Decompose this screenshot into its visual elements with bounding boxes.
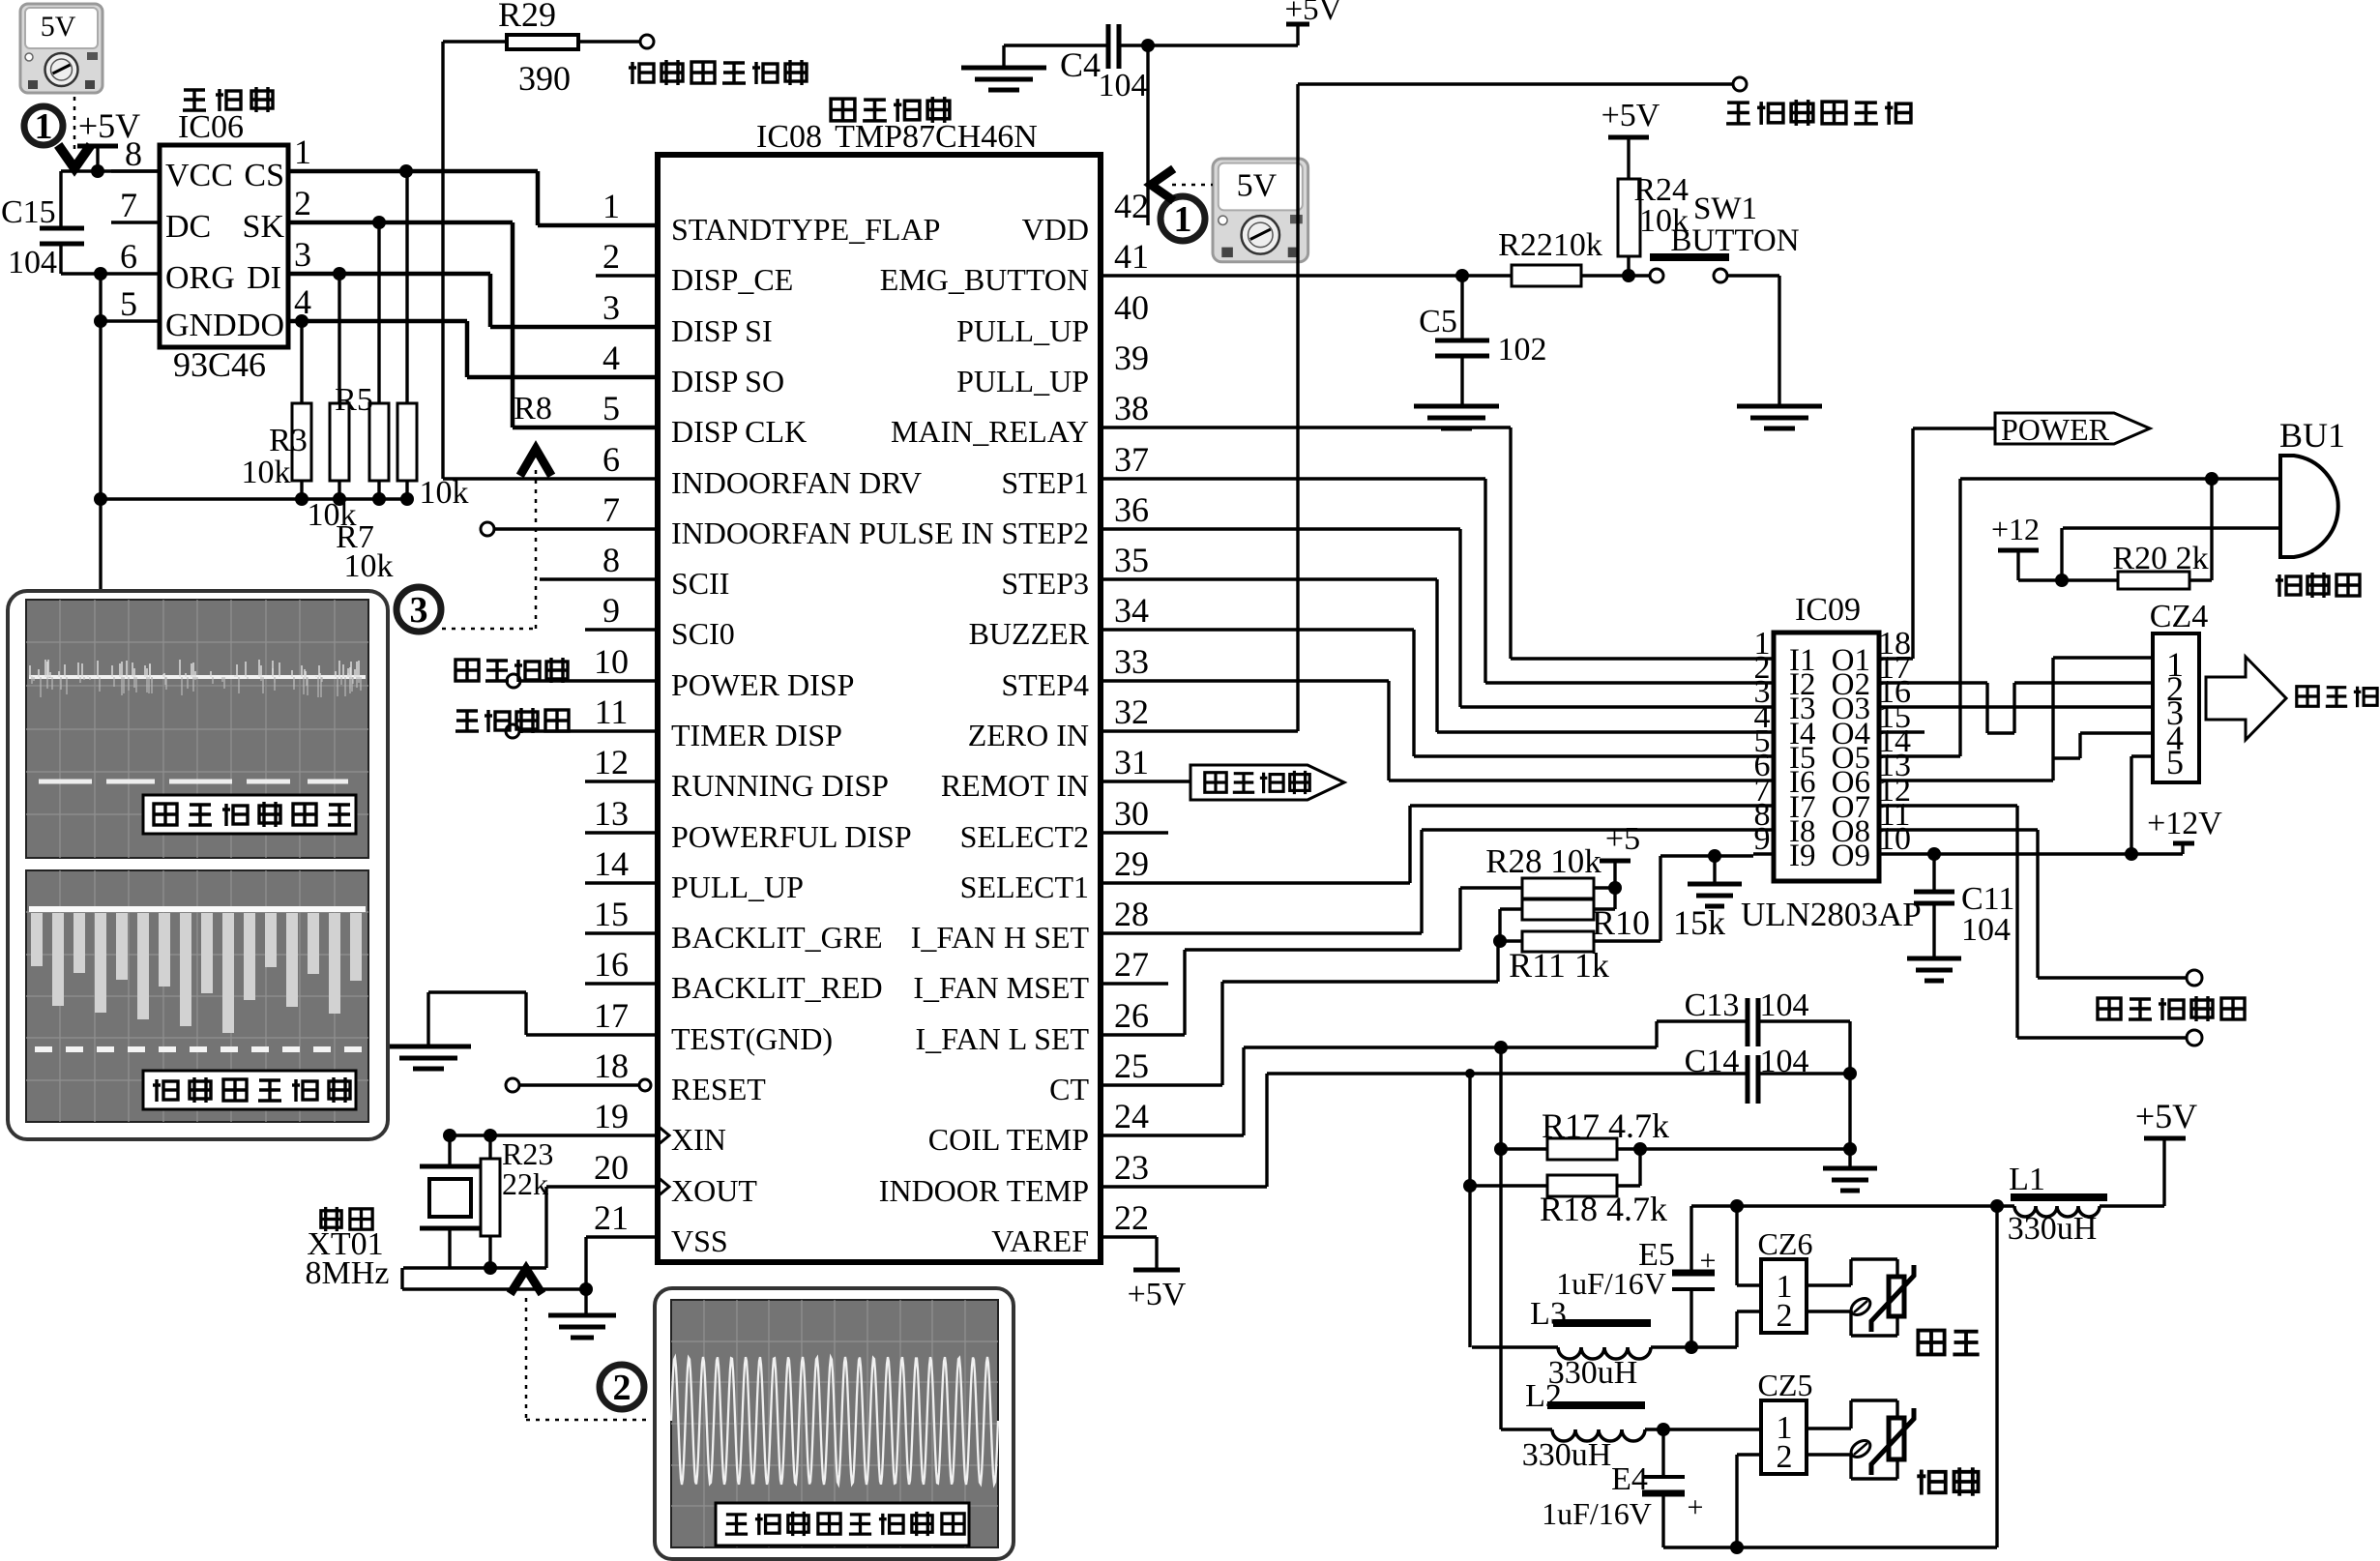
label BU1 [2279, 416, 2345, 455]
svg-text:C4: C4 [1060, 45, 1101, 84]
svg-text:PULL_UP: PULL_UP [956, 313, 1089, 348]
svg-text:SK: SK [243, 209, 285, 245]
thermistor frame 室温 [1807, 1259, 1897, 1336]
CZ5 pin numbers [1777, 1410, 1793, 1475]
label R5 10k [308, 497, 357, 533]
label R3 10k [242, 423, 308, 490]
dotted probe pointer 2 [513, 1269, 650, 1420]
svg-text:VSS: VSS [671, 1223, 728, 1258]
svg-text:DISP SO: DISP SO [671, 364, 784, 398]
ground G3 [1414, 406, 1499, 428]
wire XIN pin19 [443, 1129, 658, 1142]
svg-text:SCII: SCII [671, 566, 729, 601]
svg-text:R10: R10 [1592, 903, 1650, 942]
+12 supply R20 [1991, 512, 2040, 580]
thermistor 室温 element [1848, 1265, 1914, 1332]
IC08 pins 12-16 stubs [585, 781, 658, 984]
wire BUZZER pin34 to I5 [1102, 630, 1753, 756]
label R20 2k [2112, 541, 2208, 576]
flag POWER [1995, 412, 2150, 447]
wire CS to pin1 [288, 164, 658, 225]
svg-text:DI: DI [247, 260, 281, 296]
svg-text:COIL TEMP: COIL TEMP [928, 1122, 1089, 1157]
wire O1 to POWER flag [1899, 428, 1995, 659]
svg-text:24: 24 [1114, 1097, 1149, 1135]
svg-text:104: 104 [1961, 912, 2011, 948]
svg-text:42: 42 [1114, 187, 1149, 225]
wire O7 to relay terminal [1899, 806, 2187, 1038]
svg-text:XIN: XIN [671, 1122, 726, 1157]
wire CZ6 pin1 to +5 rail [1737, 1206, 1761, 1285]
svg-text:R28 10k: R28 10k [1485, 842, 1601, 880]
IC08 pin30 stub [1102, 831, 1168, 834]
svg-text:ORG: ORG [165, 260, 235, 296]
svg-text:EMG_BUTTON: EMG_BUTTON [880, 262, 1089, 297]
svg-text:2: 2 [294, 184, 311, 222]
svg-text:I_FAN MSET: I_FAN MSET [913, 970, 1089, 1005]
svg-text:3: 3 [294, 235, 311, 274]
label CZ5 [1758, 1368, 1813, 1402]
label C4 [1060, 45, 1101, 84]
resistor R23 [481, 1135, 500, 1268]
wire ground column x1913 [1843, 1021, 1857, 1166]
label IC09 [1795, 592, 1861, 628]
svg-text:30: 30 [1114, 794, 1149, 833]
ground G7 [1688, 856, 1742, 906]
svg-text:330uH: 330uH [1522, 1437, 1612, 1473]
oscilloscope panel frame (left) [8, 591, 388, 1139]
capacitor C4 [1004, 24, 1298, 69]
CZ4 pin numbers [2166, 645, 2184, 781]
svg-text:5V: 5V [41, 11, 76, 43]
+5V supply L1 [2135, 1097, 2197, 1206]
label R18 4.7k [1540, 1190, 1667, 1228]
svg-text:40: 40 [1114, 288, 1149, 327]
label IC08 TMP87CH46N [756, 119, 1038, 155]
resistor R22 [1512, 265, 1581, 286]
svg-text:SELECT1: SELECT1 [960, 869, 1089, 904]
svg-text:REMOT IN: REMOT IN [941, 768, 1089, 803]
svg-text:+5V: +5V [1601, 98, 1660, 133]
label R29 [498, 0, 556, 34]
svg-text:21: 21 [594, 1198, 629, 1237]
label R5 [335, 382, 373, 418]
wire pull-up rail [101, 492, 414, 506]
svg-text:5: 5 [2166, 743, 2184, 781]
svg-text:16: 16 [594, 945, 629, 984]
wire CT pin25 to R10 R11 [1102, 941, 1498, 1085]
svg-text:R17 4.7k: R17 4.7k [1542, 1106, 1669, 1145]
wire RESET pin18 [506, 1078, 651, 1092]
resistor R28 [1522, 878, 1622, 898]
inductor L2 [1501, 1401, 1761, 1441]
svg-text:15k: 15k [1673, 903, 1725, 942]
svg-text:BACKLIT_RED: BACKLIT_RED [671, 970, 883, 1005]
wire STEP2 pin36 to I3 [1102, 529, 1753, 707]
wire SELECT1 pin29 to I7 [1102, 806, 1753, 883]
wire VSS pin21 [402, 1237, 658, 1296]
oscilloscope screenshot crystal waveform [671, 1300, 998, 1547]
svg-text:VDD: VDD [1022, 212, 1089, 247]
svg-text:R5: R5 [335, 382, 373, 418]
svg-text:1uF/16V: 1uF/16V [1556, 1266, 1666, 1301]
svg-text:39: 39 [1114, 339, 1149, 377]
svg-text:2: 2 [1777, 1439, 1793, 1475]
svg-text:TMP87CH46N: TMP87CH46N [835, 119, 1038, 155]
svg-text:2: 2 [613, 1368, 632, 1408]
IC09 pin stubs [1753, 659, 1899, 854]
IC08 pin names [671, 212, 1090, 1258]
label C5 [1419, 304, 1457, 339]
CZ6 pin numbers [1777, 1269, 1793, 1334]
svg-text:R29: R29 [498, 0, 556, 34]
ground G9 [1823, 1168, 1877, 1191]
IC08 XIN XOUT clock marks [658, 1126, 669, 1196]
svg-text:3: 3 [410, 590, 428, 631]
svg-text:POWERFUL DISP: POWERFUL DISP [671, 819, 912, 854]
svg-text:37: 37 [1114, 440, 1149, 479]
svg-text:L3: L3 [1530, 1296, 1567, 1332]
inductor L1 [2011, 1193, 2164, 1217]
callout circled 2 [600, 1365, 644, 1409]
svg-text:1: 1 [602, 187, 620, 225]
svg-text:33: 33 [1114, 642, 1149, 681]
svg-text:PULL_UP: PULL_UP [671, 869, 804, 904]
wire crystal bottom rail [403, 1261, 546, 1275]
svg-text:28: 28 [1114, 895, 1149, 933]
svg-text:22k: 22k [502, 1166, 548, 1201]
svg-text:8MHz: 8MHz [306, 1255, 390, 1291]
svg-text:390: 390 [518, 59, 571, 98]
svg-text:19: 19 [594, 1097, 629, 1135]
resistor R5 [330, 274, 349, 499]
resistor R29 [443, 35, 640, 49]
IC08 pin8 stub [540, 577, 658, 580]
label E5 1uF/16V [1556, 1266, 1666, 1301]
label 电流检测信号 (current sense signal) [629, 60, 807, 85]
svg-text:5: 5 [602, 389, 620, 427]
wire O2 to CZ4 pin2 [1899, 683, 2153, 733]
svg-text:R2210k: R2210k [1498, 227, 1602, 263]
svg-text:36: 36 [1114, 490, 1149, 529]
IC09 pin labels [1789, 643, 1870, 873]
IC08 pin2 stub [596, 274, 658, 277]
resistor R11 [1493, 931, 1660, 952]
flag 遥控信号 (remote signal) at pin31 [1102, 765, 1344, 800]
svg-text:93C46: 93C46 [173, 345, 266, 384]
capacitor E4 electrolytic [1642, 1429, 1703, 1547]
svg-text:23: 23 [1114, 1148, 1149, 1187]
svg-text:7: 7 [120, 186, 137, 224]
svg-text:ULN2803AP: ULN2803AP [1741, 896, 1922, 933]
svg-text:+5V: +5V [1285, 0, 1342, 27]
label E4 [1611, 1461, 1648, 1497]
svg-text:STEP3: STEP3 [1001, 566, 1089, 601]
svg-text:DO: DO [237, 308, 284, 343]
label C14 104 [1685, 1044, 1809, 1079]
thermistor 管温 element [1848, 1408, 1914, 1475]
buzzer BU1 [2280, 456, 2338, 557]
svg-text:9: 9 [602, 591, 620, 630]
wire MAIN_RELAY pin38 to I1 [1102, 427, 1753, 659]
label R11 1k [1509, 946, 1609, 985]
wire +12V to CZ4 pin5 [2131, 756, 2153, 854]
label 继电器控制 (relay control) [2098, 996, 2245, 1021]
label C4 104 [1099, 68, 1148, 103]
oscilloscope frame (bottom) [655, 1288, 1014, 1559]
svg-text:IC09: IC09 [1795, 592, 1861, 628]
svg-text:+5V: +5V [2135, 1097, 2197, 1135]
driver IC09 ULN2803AP body [1774, 633, 1879, 881]
svg-text:104: 104 [1760, 987, 1809, 1023]
svg-text:27: 27 [1114, 945, 1149, 984]
capacitor E5 electrolytic [1672, 1206, 1716, 1347]
IC08 pin numbers [594, 187, 1149, 1237]
wire +12 node [2018, 574, 2118, 587]
label 电动机 (motor) [2297, 687, 2377, 707]
label R8 [514, 391, 552, 427]
callout circled 3 [397, 587, 441, 632]
svg-text:CT: CT [1049, 1072, 1089, 1106]
svg-text:7: 7 [602, 490, 620, 529]
wire IFANHSET pin28 to I8 [1102, 830, 1753, 933]
svg-text:C15: C15 [1, 194, 56, 230]
callout circled 1 (VDD) [1161, 196, 1205, 241]
wire R11 to I9 [1660, 849, 1753, 941]
svg-text:INDOORFAN PULSE IN: INDOORFAN PULSE IN [671, 515, 994, 550]
wire ZERO IN pin32 to terminal [1102, 84, 1733, 731]
ground G6 [548, 1289, 616, 1338]
svg-text:10: 10 [594, 642, 629, 681]
IC06 pin numbers [120, 133, 311, 323]
svg-text:INDOORFAN DRV: INDOORFAN DRV [671, 465, 922, 500]
wire EMG_BUTTON pin41 [1102, 269, 1650, 282]
svg-text:35: 35 [1114, 541, 1149, 579]
svg-text:R18 4.7k: R18 4.7k [1540, 1190, 1667, 1228]
oscilloscope screenshot data waveform [26, 870, 368, 1122]
label E4 1uF/16V [1542, 1496, 1652, 1531]
svg-text:C13: C13 [1685, 987, 1740, 1023]
label 管温 (pipe temp) [1917, 1467, 1978, 1495]
svg-text:10k: 10k [344, 548, 394, 584]
svg-text:330uH: 330uH [2008, 1211, 2098, 1247]
svg-text:PULL_UP: PULL_UP [956, 364, 1089, 398]
svg-text:102: 102 [1498, 332, 1547, 368]
+5V supply top [1285, 0, 1342, 45]
svg-text:DC: DC [165, 209, 211, 245]
svg-text:104: 104 [8, 245, 57, 280]
capacitor C5 [1435, 276, 1489, 404]
svg-text:L2: L2 [1525, 1378, 1562, 1414]
wire SK to pin5 [288, 216, 658, 427]
label ULN2803AP [1741, 896, 1922, 933]
svg-text:RUNNING DISP: RUNNING DISP [671, 768, 889, 803]
svg-text:9: 9 [1754, 821, 1771, 857]
wire R29 to pin6 [443, 42, 658, 479]
+5 supply R28 [1600, 821, 1640, 909]
label L2 [1525, 1378, 1562, 1414]
terminal 过零检测信号 [1733, 77, 1747, 91]
+12V supply [2147, 806, 2222, 843]
label L3 330uH [1548, 1355, 1638, 1391]
wire pin23 column to L3 [1468, 1074, 1471, 1347]
svg-text:20: 20 [594, 1148, 629, 1187]
svg-text:6: 6 [602, 440, 620, 479]
svg-text:31: 31 [1114, 743, 1149, 781]
ground G5 [386, 1046, 471, 1069]
svg-text:R3: R3 [269, 423, 308, 458]
svg-text:BUTTON: BUTTON [1670, 223, 1799, 258]
svg-text:C14: C14 [1685, 1044, 1740, 1079]
svg-text:STEP2: STEP2 [1001, 515, 1089, 550]
svg-text:5V: 5V [1237, 167, 1278, 203]
inductor L3 [1472, 1319, 1737, 1359]
svg-text:104: 104 [1760, 1044, 1809, 1079]
wire STEP4 pin33 to I6 [1102, 681, 1753, 780]
label R24 10k [1633, 172, 1689, 239]
label 时间显示 (timer display) [455, 708, 569, 733]
capacitor C11 [1914, 854, 1954, 957]
dotted probe pointer VDD [1151, 171, 1213, 198]
resistor R24 [1618, 137, 1640, 276]
crystal XT01 [420, 1135, 481, 1268]
label box 时钟晶振信号波形 [716, 1503, 969, 1546]
wire CZ5 pin2 bottom loop [1663, 1206, 1997, 1554]
svg-text:13: 13 [594, 794, 629, 833]
svg-text:I_FAN H SET: I_FAN H SET [911, 920, 1090, 955]
resistor R18 [1463, 1149, 1640, 1196]
dotted probe pointer 1 [61, 97, 88, 168]
svg-text:STANDTYPE_FLAP: STANDTYPE_FLAP [671, 212, 940, 247]
svg-text:26: 26 [1114, 996, 1149, 1035]
capacitor C13 [1748, 998, 1850, 1046]
svg-text:L1: L1 [2009, 1162, 2045, 1197]
terminal relay control upper [2187, 970, 2202, 986]
oscilloscope screenshot clock waveform [26, 600, 368, 858]
label C15 104 [8, 245, 57, 280]
svg-text:10k: 10k [242, 455, 291, 490]
wire DO to pin4 [288, 314, 658, 377]
IC06 pin names [165, 158, 284, 343]
arrow 电动机 (motor) [2206, 657, 2286, 740]
svg-text:+12V: +12V [2147, 806, 2222, 841]
wire INDOOR TEMP pin23 [1102, 1069, 1748, 1187]
svg-text:POWER DISP: POWER DISP [671, 667, 854, 702]
ground G4 [1737, 406, 1822, 428]
label box 数据信号波形 [143, 1071, 356, 1109]
connector CZ5 body [1761, 1400, 1807, 1474]
svg-text:VAREF: VAREF [991, 1223, 1089, 1258]
svg-text:2: 2 [1777, 1298, 1793, 1334]
svg-text:10: 10 [1878, 821, 1911, 857]
wire +5 sensor rail [1691, 1199, 2014, 1213]
multimeter icon test point 1 (top-left) [20, 4, 103, 93]
wire CZ6 pin2 to L3 [1737, 1311, 1761, 1347]
switch SW1 BUTTON [1650, 257, 1729, 282]
svg-text:1: 1 [294, 133, 311, 171]
svg-text:17: 17 [594, 996, 629, 1035]
terminal pin7 indoorfan pulse [481, 522, 658, 536]
svg-text:POWER: POWER [2001, 412, 2110, 447]
resistor R20 [2118, 479, 2212, 589]
svg-text:IC08: IC08 [756, 119, 822, 155]
label 过零检测信号 (zero-cross detect) [1726, 100, 1911, 126]
svg-text:1: 1 [1174, 199, 1192, 240]
svg-text:2: 2 [602, 237, 620, 276]
svg-text:DISP SI: DISP SI [671, 313, 773, 348]
+5V supply R24 [1601, 98, 1660, 137]
thermistor frame 管温 [1807, 1400, 1897, 1479]
svg-text:38: 38 [1114, 389, 1149, 427]
wire STEP3 pin35 to I4 [1102, 579, 1753, 732]
label R17 4.7k [1542, 1106, 1669, 1145]
svg-text:41: 41 [1114, 237, 1149, 276]
label R10 15k [1592, 903, 1725, 942]
terminal 时间显示 pin11 [506, 724, 658, 738]
svg-text:XOUT: XOUT [671, 1173, 757, 1208]
memory IC06 93C46 body [160, 145, 288, 347]
svg-text:R20 2k: R20 2k [2112, 541, 2208, 576]
svg-text:STEP4: STEP4 [1001, 667, 1089, 702]
svg-text:E4: E4 [1611, 1461, 1648, 1497]
svg-text:22: 22 [1114, 1198, 1149, 1237]
svg-text:+: + [1688, 1491, 1704, 1523]
label R29 390 [518, 59, 571, 98]
terminal 电源显示 pin10 [507, 674, 658, 688]
IC08 pin27 stub [1102, 982, 1168, 985]
callout circled 1 (left) [24, 106, 63, 147]
svg-text:BACKLIT_GRE: BACKLIT_GRE [671, 920, 883, 955]
svg-text:I9: I9 [1789, 839, 1816, 873]
label R7 10k [336, 519, 393, 584]
IC09 O4 stub [1899, 730, 1925, 733]
label L1 330uH [2008, 1211, 2098, 1247]
label C11 104 [1961, 881, 2014, 948]
svg-text:14: 14 [594, 844, 629, 883]
svg-text:8: 8 [602, 541, 620, 579]
wire O9 +12V rail [1899, 843, 2183, 861]
wire SW1 to ground [1727, 276, 1779, 404]
label SW1 BUTTON [1670, 191, 1799, 258]
label CZ4 [2150, 599, 2208, 634]
svg-text:34: 34 [1114, 591, 1149, 630]
svg-text:MAIN_RELAY: MAIN_RELAY [891, 414, 1089, 449]
svg-text:BUZZER: BUZZER [969, 616, 1090, 651]
svg-text:12: 12 [594, 743, 629, 781]
svg-text:25: 25 [1114, 1046, 1149, 1085]
label L3 [1530, 1296, 1567, 1332]
wire VDD pin42 [1146, 45, 1149, 225]
IC06 pin stubs [101, 171, 160, 321]
label 晶体 (crystal) [321, 1207, 372, 1231]
svg-text:4: 4 [602, 339, 620, 377]
wire COIL TEMP pin24 [1102, 1021, 1748, 1135]
svg-text:11: 11 [595, 692, 629, 731]
svg-text:INDOOR TEMP: INDOOR TEMP [879, 1173, 1089, 1208]
label L2 330uH [1522, 1437, 1612, 1473]
ground G2 [961, 45, 1046, 90]
wire O6 to CZ4 pins1-4 [1899, 658, 2153, 780]
wire XOUT pin20 [546, 1187, 658, 1268]
resistor R8 [397, 171, 417, 499]
svg-text:5: 5 [120, 284, 137, 323]
label C13 104 [1685, 987, 1809, 1023]
IC09 pin numbers [1754, 626, 1912, 857]
connector CZ4 body [2153, 633, 2199, 782]
label 存储器 (memory) [183, 87, 273, 112]
svg-text:15: 15 [594, 895, 629, 933]
svg-text:CZ6: CZ6 [1758, 1226, 1813, 1261]
